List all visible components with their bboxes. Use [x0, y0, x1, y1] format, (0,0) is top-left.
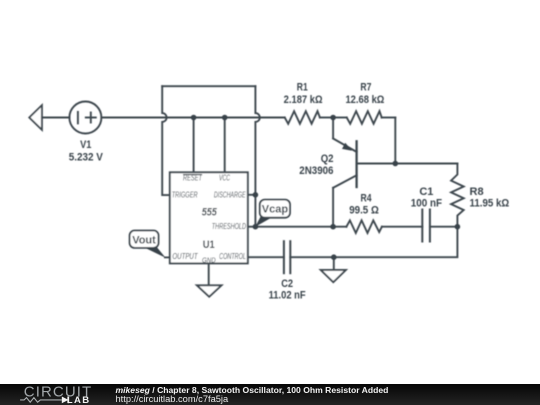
junction rail / VCC pin — [222, 115, 228, 121]
svg-text:THRESHOLD: THRESHOLD — [212, 222, 246, 231]
footer bar — [0, 384, 540, 405]
svg-text:CONTROL: CONTROL — [219, 252, 246, 261]
svg-text:Vout: Vout — [132, 235, 156, 247]
node Vout flag — [130, 231, 170, 258]
wire R4 to C1 — [382, 226, 422, 228]
logo diode triangle — [62, 397, 69, 404]
svg-text:555: 555 — [202, 207, 218, 219]
junction R8 / C1 / down wire — [455, 224, 461, 230]
wire R7 down to base node — [394, 118, 396, 164]
svg-text:R1: R1 — [297, 82, 308, 94]
transistor Q2 emitter lead — [333, 139, 357, 152]
svg-text:5.232 V: 5.232 V — [69, 151, 104, 163]
label C2 11.02 nF — [269, 278, 306, 302]
svg-text:2N3906: 2N3906 — [299, 165, 333, 177]
label Q2 2N3906 — [299, 153, 333, 177]
svg-text:VCC: VCC — [219, 173, 230, 182]
svg-text:100 nF: 100 nF — [411, 197, 442, 209]
svg-text:R4: R4 — [361, 193, 373, 205]
svg-text:U1: U1 — [203, 239, 215, 251]
label C1 100 nF — [411, 186, 442, 209]
V1 plus sign — [86, 117, 96, 119]
V1 minus bar — [77, 112, 79, 124]
svg-text:Q2: Q2 — [321, 153, 334, 165]
ground (GND pin) — [197, 285, 222, 296]
wire base node to R8 — [395, 163, 457, 165]
net flag arrow at V1 negative terminal — [29, 105, 42, 130]
logo resistor-diode squiggle — [20, 397, 68, 404]
junction control net / ground — [331, 254, 337, 260]
resistor R8 — [451, 164, 464, 227]
junction THRESHOLD node (Vcap) — [253, 224, 259, 230]
node Vcap flag — [255, 200, 290, 227]
wire R1 to node A — [320, 117, 333, 119]
svg-text:11.02 nF: 11.02 nF — [269, 290, 306, 302]
transistor Q2 emitter arrow (PNP) — [342, 143, 352, 151]
svg-text:GND: GND — [202, 258, 216, 265]
label R4 99.5 Ohm — [349, 193, 379, 217]
voltage source V1 body — [69, 102, 101, 134]
svg-text:OUTPUT: OUTPUT — [172, 252, 198, 261]
wire C2 to CONTROL pin — [248, 256, 284, 258]
resistor R7 — [347, 111, 382, 124]
junction Q2 base / R7 / R8 — [393, 161, 399, 167]
capacitor C2 — [283, 241, 285, 273]
svg-text:11.95 kΩ: 11.95 kΩ — [470, 197, 510, 209]
wire left vertical with hop over rail, to TRIGGER pin — [162, 86, 170, 195]
svg-text:LAB: LAB — [67, 395, 91, 405]
ground stem on control net — [333, 257, 335, 270]
wire R8 bottom node down and left to C2 — [290, 227, 457, 258]
junction node A (R1 / R7 / Q2 emitter) — [330, 115, 336, 121]
resistor R4 — [346, 220, 382, 233]
wire R7 right lead — [382, 117, 396, 119]
label R1 2.187 kOhm — [284, 82, 323, 106]
wire VCC rail from V1 to R1 — [101, 117, 284, 119]
wire flag to V1 — [42, 117, 70, 119]
IC U1 555 body — [170, 172, 248, 263]
junction rail / RESET pin — [191, 115, 197, 121]
wire threshold net to R4 — [255, 226, 346, 228]
label V1 5.232 V — [69, 139, 104, 163]
RESET active-low overline — [183, 174, 202, 176]
svg-text:V1: V1 — [80, 139, 91, 151]
capacitor C1 — [421, 210, 423, 242]
label R8 11.95 kOhm — [470, 186, 510, 209]
wire collector down to threshold net — [332, 188, 334, 227]
wire right vertical with hop over rail, to DISCHARGE node — [255, 86, 259, 195]
svg-text:C2: C2 — [281, 278, 293, 290]
svg-text:R7: R7 — [360, 82, 371, 94]
wire GND pin stem — [208, 263, 210, 285]
svg-text:TRIGGER: TRIGGER — [172, 190, 198, 199]
wire RESET pin to rail — [193, 118, 195, 173]
wire node A to R7 — [333, 117, 347, 119]
transistor Q2 collector lead — [333, 175, 357, 188]
junction collector / threshold net — [330, 224, 336, 230]
label R7 12.68 kOhm — [345, 82, 384, 106]
junction DISCHARGE node — [253, 192, 259, 198]
wire top loop horizontal (TRIGGER net) — [162, 85, 255, 87]
ground (control net) — [321, 270, 346, 282]
wire C1 to R8 bottom node — [430, 226, 458, 228]
svg-text:DISCHARGE: DISCHARGE — [214, 190, 246, 199]
svg-text:99.5 Ω: 99.5 Ω — [349, 205, 379, 217]
wire DISCHARGE pin stub — [248, 194, 256, 196]
wire node A down to Q2 emitter — [332, 118, 334, 139]
svg-text:2.187 kΩ: 2.187 kΩ — [284, 94, 323, 106]
wire DISCHARGE node to THRESHOLD node — [254, 195, 256, 227]
resistor R1 — [285, 111, 320, 124]
wire VCC pin to rail — [224, 118, 226, 173]
wire THRESHOLD pin stub — [248, 226, 256, 228]
svg-text:Vcap: Vcap — [262, 204, 289, 216]
transistor Q2 base lead — [357, 163, 396, 165]
transistor Q2 body bar — [355, 141, 357, 187]
svg-text:http://circuitlab.com/c7fa5ja: http://circuitlab.com/c7fa5ja — [116, 394, 229, 404]
svg-text:12.68 kΩ: 12.68 kΩ — [345, 94, 384, 106]
